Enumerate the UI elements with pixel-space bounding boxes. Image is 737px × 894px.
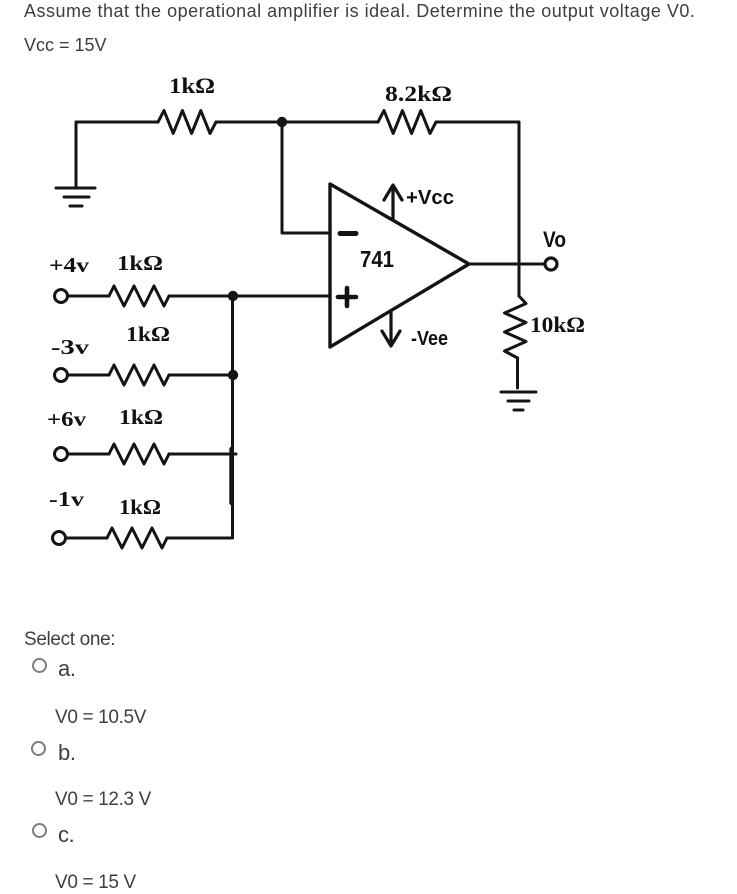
radio b — [31, 741, 46, 756]
node C junction dot — [228, 370, 238, 380]
svg-text:Vo: Vo — [543, 227, 566, 252]
terminal Vo (open circle) — [545, 258, 557, 270]
wire node B to op-amp plus input — [233, 295, 330, 298]
question text line 1 — [24, 1, 695, 22]
svg-text:1kΩ: 1kΩ — [119, 405, 163, 429]
wire summing bus vertical — [231, 296, 234, 538]
wire input3 to R5 — [68, 453, 109, 456]
svg-text:1kΩ: 1kΩ — [119, 495, 161, 519]
svg-text:+Vcc: +Vcc — [406, 187, 454, 209]
svg-text:1kΩ: 1kΩ — [169, 73, 215, 98]
svg-text:+4v: +4v — [49, 253, 90, 277]
svg-text:10kΩ: 10kΩ — [530, 312, 585, 337]
circuit schematic — [0, 0, 737, 620]
resistor R3 1k — [109, 286, 169, 306]
-Vee arrow — [382, 312, 400, 346]
wire input1 to R3 — [68, 295, 109, 298]
terminal input 4 — [53, 532, 66, 545]
resistor R7 10k (vertical) — [505, 296, 527, 358]
wire R4 to bus node C — [169, 374, 233, 377]
wire op-amp output to Vo terminal — [469, 263, 545, 266]
plus sign (non-inverting input) — [338, 288, 356, 306]
wire top-left horizontal from ground branch to resistor R1 — [76, 121, 158, 124]
ground (below 10k) — [501, 392, 536, 410]
wire inverting input: node A down and right to op-amp — [282, 122, 330, 233]
wire output node down to 10k resistor — [518, 264, 521, 296]
wire left vertical down to ground — [75, 122, 78, 186]
wire R6 to bus bottom — [167, 537, 231, 540]
terminal input 2 — [55, 369, 68, 382]
wire bus thick segment (scan doubling) — [229, 449, 233, 503]
minus sign (inverting input) — [340, 231, 356, 236]
answer section — [24, 629, 115, 651]
wire R5 to bus — [169, 453, 236, 456]
svg-text:-Vee: -Vee — [411, 328, 448, 350]
resistor R2 8.2k (top right) — [378, 111, 436, 134]
wire right vertical feedback down to output node — [518, 122, 521, 264]
svg-text:-3v: -3v — [51, 335, 90, 359]
wire input2 to R4 — [68, 374, 109, 377]
resistor R4 1k — [109, 365, 169, 385]
radio a — [32, 658, 47, 673]
resistor R1 1k (top) — [158, 111, 216, 134]
wire 10k to ground — [516, 358, 519, 388]
svg-text:8.2kΩ: 8.2kΩ — [385, 81, 452, 106]
+Vcc arrow — [384, 185, 402, 219]
svg-text:741: 741 — [360, 246, 394, 272]
radio c — [32, 823, 47, 838]
terminal input 1 — [55, 290, 68, 303]
wire from R1 to node A — [216, 121, 282, 124]
wire input4 to R6 — [66, 537, 107, 540]
wire R3 to bus node B — [169, 295, 233, 298]
svg-text:+6v: +6v — [47, 407, 87, 431]
svg-text:-1v: -1v — [49, 487, 85, 511]
ground (top-left) — [56, 188, 95, 206]
node B junction dot — [228, 291, 238, 301]
node A junction dot — [277, 117, 287, 127]
svg-text:1kΩ: 1kΩ — [126, 322, 170, 346]
op-amp U1 741 triangle — [330, 184, 469, 347]
wire from R2 to right vertical feedback — [436, 121, 519, 124]
terminal input 3 — [55, 448, 68, 461]
resistor R5 1k — [109, 444, 169, 464]
svg-text:1kΩ: 1kΩ — [117, 251, 163, 275]
question text line 2 — [24, 35, 107, 56]
resistor R6 1k — [107, 528, 167, 548]
wire node A to resistor R2 — [282, 121, 378, 124]
